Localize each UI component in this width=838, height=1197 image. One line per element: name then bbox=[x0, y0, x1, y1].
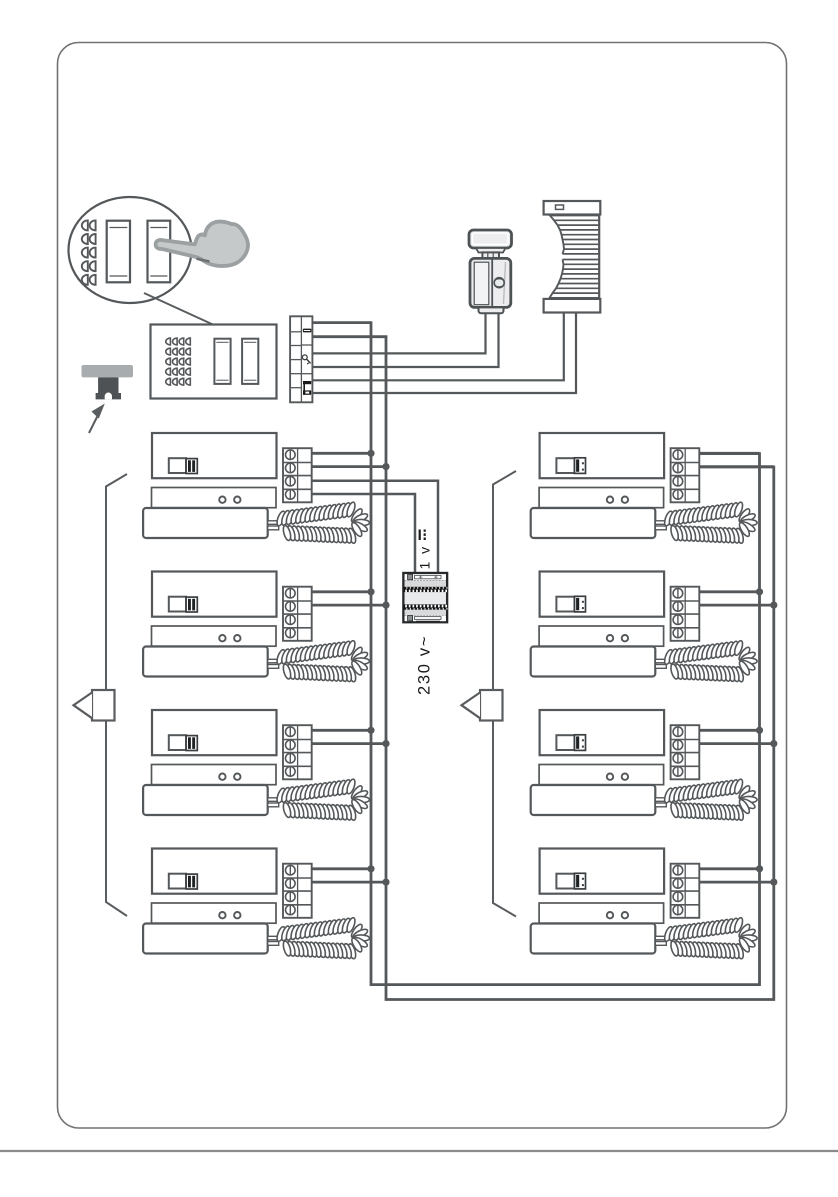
circle grille hole r3c2 bbox=[90, 248, 96, 258]
entrance panel terminal block bbox=[290, 316, 312, 402]
wire: right unit 3 line 2 bbox=[700, 742, 774, 745]
wire: entrance terminal 6 to door striker bbox=[312, 313, 576, 394]
wire: right unit 2 line 2 bbox=[700, 604, 774, 607]
panel grille hole r1c1 bbox=[166, 338, 171, 345]
wire: bus 2 (entrance terminal 2 - left riser - bottom run - right riser) bbox=[312, 337, 774, 1000]
intercom unit right 4 bbox=[531, 849, 758, 960]
wire: left unit 3 line 2 bbox=[312, 742, 386, 745]
terminal icon: speaker bbox=[303, 329, 312, 333]
panel grille hole r2c1 bbox=[166, 348, 171, 355]
circle grille hole r3c1 bbox=[82, 248, 88, 258]
panel grille hole r4c4 bbox=[186, 368, 191, 375]
panel grille hole r5c4 bbox=[186, 378, 191, 385]
wire: left unit 1 terminal 4 to transformer secondary bbox=[312, 494, 415, 574]
panel grille hole r4c2 bbox=[172, 368, 177, 375]
panel grille hole r4c1 bbox=[166, 368, 171, 375]
wire: left unit 2 line 1 bbox=[312, 590, 371, 593]
transformer middle band bbox=[405, 592, 446, 604]
door striker bottom plate bbox=[544, 299, 601, 313]
wire: entrance terminal 4 to lock release bbox=[312, 313, 499, 367]
junction dot left bus 1 unit 4 bbox=[367, 865, 374, 872]
lock release button icon: plate bbox=[82, 365, 134, 377]
circle button 2 bbox=[148, 221, 171, 283]
left riser arrow bbox=[92, 690, 115, 721]
panel grille hole r3c2 bbox=[173, 358, 178, 365]
panel grille hole r2c2 bbox=[173, 348, 178, 355]
intercom unit left 3 bbox=[143, 710, 370, 821]
circle grille hole r4c2 bbox=[90, 261, 96, 271]
label 1 v dc bbox=[417, 530, 433, 570]
transformer bottom terminal strip bbox=[405, 616, 446, 621]
intercom unit left 2 bbox=[143, 572, 370, 683]
svg-text:230 v~: 230 v~ bbox=[416, 635, 434, 695]
wire: left unit 4 line 1 bbox=[312, 867, 371, 870]
wire: left unit 3 line 1 bbox=[312, 729, 371, 732]
page frame border bbox=[58, 43, 787, 1129]
transformer upper tooth row bbox=[403, 587, 447, 592]
wire: left unit 1 line 1 bbox=[312, 452, 371, 455]
panel grille hole r4c3 bbox=[179, 368, 184, 375]
wire: right unit 4 line 1 bbox=[700, 867, 760, 870]
junction dot left bus 1 unit 1 bbox=[367, 450, 374, 457]
wire: right unit 1 line 1 bbox=[700, 452, 760, 455]
junction dot right bus 2 unit 3 bbox=[770, 740, 777, 747]
junction dot left bus 1 unit 2 bbox=[367, 588, 374, 595]
intercom unit left 1 bbox=[143, 433, 370, 544]
panel grille hole r1c2 bbox=[173, 338, 178, 345]
junction dot right bus 1 unit 2 bbox=[756, 588, 763, 595]
intercom unit right 2 bbox=[531, 572, 758, 683]
footer rule bbox=[0, 1150, 838, 1152]
wire: bus 1 (entrance terminal 1 - left riser - bottom run - right riser) bbox=[312, 323, 760, 985]
intercom unit right 1 bbox=[531, 433, 758, 544]
wire: right unit 3 line 1 bbox=[700, 729, 760, 732]
panel grille hole r5c3 bbox=[179, 378, 184, 385]
left riser bracket bbox=[106, 474, 127, 916]
junction dot right bus 1 unit 3 bbox=[756, 727, 763, 734]
panel grille hole r1c3 bbox=[179, 338, 184, 345]
circle grille hole r2c2 bbox=[90, 234, 96, 244]
panel grille hole r2c4 bbox=[186, 348, 191, 355]
door striker right edge bbox=[598, 215, 600, 299]
right riser arrow bbox=[480, 690, 503, 721]
panel grille hole r5c1 bbox=[166, 378, 171, 385]
transformer upper speckle band bbox=[405, 580, 446, 586]
junction dot left bus 2 unit 4 bbox=[382, 879, 389, 886]
wire: left unit 2 line 2 bbox=[312, 604, 386, 607]
junction dot right bus 2 unit 2 bbox=[770, 602, 777, 609]
junction dot left bus 2 unit 1 bbox=[382, 463, 389, 470]
wire: entrance terminal 5 to door striker bbox=[312, 313, 564, 381]
circle grille hole r1c1 bbox=[82, 220, 88, 230]
panel button 2 bbox=[242, 339, 258, 384]
transformer lower tooth row bbox=[403, 604, 447, 609]
circle grille hole r2c1 bbox=[82, 234, 88, 244]
wire: left unit 1 line 2 bbox=[312, 465, 386, 468]
transformer lower speckle band bbox=[405, 610, 446, 616]
wire: right unit 1 line 2 bbox=[700, 465, 774, 468]
lock release button icon: plunger bbox=[96, 377, 121, 399]
panel grille hole r3c1 bbox=[166, 358, 171, 365]
electric lock release bbox=[469, 230, 512, 313]
circle grille hole r5c2 bbox=[90, 275, 96, 285]
wire: left unit 1 terminal 3 to transformer secondary bbox=[312, 481, 438, 574]
panel grille hole r1c4 bbox=[186, 338, 191, 345]
terminal icon: unit bbox=[303, 381, 311, 384]
entrance panel bbox=[151, 325, 277, 399]
detail circle (zoom of entrance panel) bbox=[69, 197, 192, 303]
leader line circle to panel bbox=[144, 293, 238, 336]
circle grille hole r4c1 bbox=[82, 261, 88, 271]
wire: right unit 2 line 1 bbox=[700, 590, 760, 593]
hand finger crease bbox=[197, 259, 210, 262]
junction dot left bus 1 unit 3 bbox=[367, 727, 374, 734]
right riser bracket bbox=[493, 471, 516, 917]
panel grille hole r3c4 bbox=[186, 358, 191, 365]
pointing hand bbox=[156, 222, 248, 266]
panel grille hole r5c2 bbox=[172, 378, 177, 385]
panel button 1 bbox=[214, 339, 230, 384]
panel grille hole r3c3 bbox=[179, 358, 184, 365]
arrow to button bbox=[89, 413, 99, 433]
junction dot right bus 2 unit 4 bbox=[770, 879, 777, 886]
panel grille hole r2c3 bbox=[179, 348, 184, 355]
circle grille hole r1c2 bbox=[90, 220, 96, 230]
terminal icon: key bbox=[302, 355, 307, 360]
circle grille hole r5c1 bbox=[82, 275, 88, 285]
intercom unit left 4 bbox=[143, 849, 370, 960]
transformer body bbox=[403, 573, 447, 622]
junction dot left bus 2 unit 3 bbox=[382, 740, 389, 747]
junction dot left bus 2 unit 2 bbox=[382, 602, 389, 609]
transformer top terminal strip bbox=[405, 574, 446, 580]
door striker top plate bbox=[544, 201, 601, 215]
wire: left unit 4 line 2 bbox=[312, 881, 386, 884]
junction dot right bus 1 unit 4 bbox=[756, 865, 763, 872]
intercom unit right 3 bbox=[531, 710, 758, 821]
wire: right unit 4 line 2 bbox=[700, 881, 774, 884]
wire: entrance terminal 3 to lock release bbox=[312, 313, 486, 353]
door striker left contour bbox=[549, 215, 565, 254]
svg-text:1 v: 1 v bbox=[417, 545, 433, 570]
circle button 1 bbox=[107, 221, 130, 283]
door striker fins bbox=[550, 216, 600, 298]
